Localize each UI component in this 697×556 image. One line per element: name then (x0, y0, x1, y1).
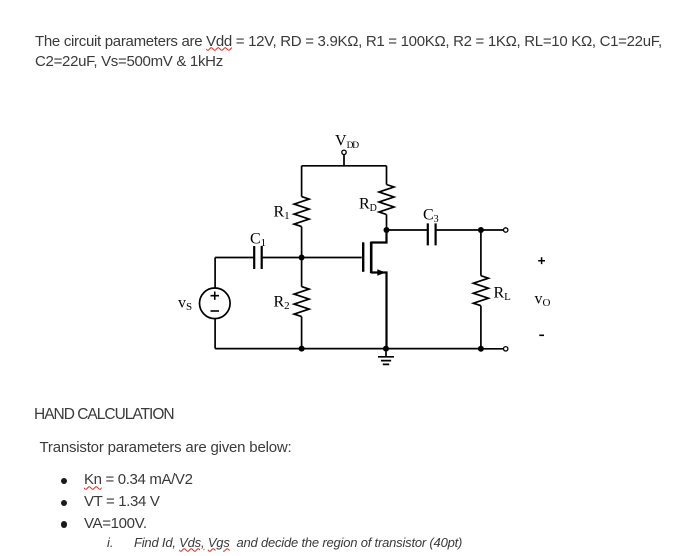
svg-text:RD: RD (359, 196, 377, 215)
wire RL to bottom rail (480, 306, 482, 349)
resistor RL (473, 276, 488, 306)
wire gate node to R2 (301, 258, 303, 287)
resistor R1 (294, 197, 309, 227)
item i find Id (107, 535, 114, 550)
wire vs top drop (214, 258, 216, 289)
transistor Q1 source lead (371, 273, 386, 349)
terminal output - (504, 347, 508, 351)
transistor Q1 gate bar (362, 242, 364, 271)
svg-text:VDD: VDD (335, 133, 359, 152)
wire R1 to gate node (301, 227, 303, 258)
wire bottom rail (215, 348, 481, 350)
node gate junction (299, 255, 305, 261)
wire gate rail (vs top corner to C1) (215, 257, 254, 259)
wire C3 to output node (436, 229, 481, 231)
wire vs bottom drop (214, 319, 216, 349)
heading HAND CALCULATION (34, 406, 174, 424)
source vs plus (211, 292, 220, 300)
svg-text:vS: vS (178, 295, 192, 314)
svg-text:R2: R2 (274, 294, 290, 313)
resistor RD (379, 185, 394, 215)
node source bottom junction (383, 346, 389, 352)
paragraph transistor parameters (40, 439, 292, 456)
terminal output + (504, 228, 508, 232)
bullet 2 (61, 500, 68, 507)
transistor Q1 drain lead (371, 230, 386, 243)
source vs minus (211, 310, 220, 312)
wire RD to drain node (386, 215, 388, 231)
label - output polarity (539, 334, 544, 336)
wire C1 to gate (262, 257, 362, 259)
svg-text:C1: C1 (250, 231, 266, 250)
wire VDD stub (343, 155, 345, 166)
wire top rail (302, 165, 387, 167)
svg-text:vO: vO (535, 291, 551, 310)
wire to output + terminal (481, 229, 504, 231)
wire to output - terminal (481, 348, 504, 350)
VDD terminal (342, 150, 346, 154)
wire top-right drop to RD (386, 166, 388, 185)
node drain junction (384, 227, 390, 233)
transistor Q1 source arrow (377, 269, 386, 275)
paragraph: circuit parameters (35, 32, 662, 73)
node R2 bottom junction (299, 346, 305, 352)
node output top junction (478, 227, 484, 233)
resistor R2 (294, 287, 309, 317)
ground stub (385, 349, 387, 357)
wire R2 to bottom rail (301, 317, 303, 349)
transistor Q1 channel bar (370, 242, 373, 274)
bullet 3 (61, 521, 68, 528)
wire output node to RL (480, 230, 482, 276)
label + output polarity (538, 257, 545, 264)
node output bottom junction (478, 346, 484, 352)
wire drain node to C3 (387, 229, 428, 231)
capacitor C3 (428, 223, 436, 245)
ground symbol (378, 357, 394, 365)
capacitor C1 (254, 246, 262, 269)
svg-text:R1: R1 (274, 204, 290, 223)
wire top-left drop to R1 (301, 166, 303, 197)
svg-text:RL: RL (494, 285, 512, 304)
svg-text:C3: C3 (423, 206, 439, 225)
bullet 1 (61, 478, 68, 485)
source vs circle (200, 288, 231, 319)
